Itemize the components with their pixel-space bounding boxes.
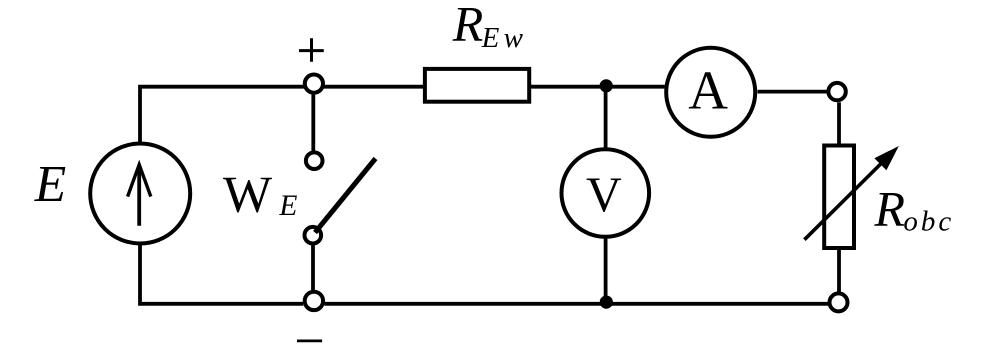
wire bottom middle: [325, 302, 831, 306]
wire switch bottom lead: [311, 246, 315, 291]
rheostat Robc: [824, 146, 854, 249]
rheostat arrow: [804, 146, 898, 240]
wire resistor to ammeter: [530, 85, 667, 89]
terminal right top: [828, 83, 845, 100]
svg-text:E: E: [34, 156, 66, 213]
switch WE pivot contact: [305, 227, 322, 244]
wire terminal to resistor: [323, 85, 426, 89]
ammeter A: [666, 48, 755, 137]
terminal right bottom: [830, 293, 848, 311]
terminal +: [305, 75, 323, 93]
wire right top lead: [837, 102, 841, 146]
node bottom junction: [600, 296, 613, 309]
wire voltmeter bottom lead: [604, 236, 608, 304]
source arrow: [128, 165, 151, 226]
wire bottom-left corner: [140, 244, 303, 304]
svg-text:V: V: [586, 167, 622, 222]
minus sign: [297, 339, 322, 342]
svg-text:A: A: [688, 59, 728, 120]
resistor REw: [425, 69, 529, 102]
voltage source E: [90, 144, 190, 244]
node top junction: [600, 79, 613, 92]
switch WE top contact: [306, 152, 323, 169]
wire right bottom lead: [837, 250, 841, 294]
terminal -: [305, 292, 323, 310]
wire top-left corner: [140, 87, 305, 144]
wire voltmeter top lead: [604, 87, 608, 150]
wire ammeter to terminal: [758, 90, 831, 94]
plus sign: [299, 38, 324, 62]
switch WE blade: [315, 159, 376, 233]
wire switch top lead: [311, 93, 315, 153]
voltmeter V: [562, 149, 650, 237]
